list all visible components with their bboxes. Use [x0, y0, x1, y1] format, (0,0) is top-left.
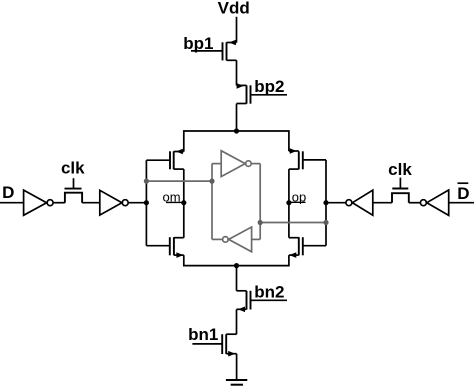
transistor bp1: [223, 40, 237, 61]
svg-text:bp1: bp1: [183, 34, 213, 53]
transistor P latch left: [170, 149, 184, 170]
svg-text:D: D: [457, 184, 469, 203]
svg-text:op: op: [292, 190, 306, 205]
wire keeper to left gate column (gray): [146, 180, 212, 182]
wire keeper left vertical (gray): [211, 164, 213, 240]
wire D input: [0, 202, 24, 204]
svg-text:bn2: bn2: [254, 282, 284, 301]
wire top rail: [184, 131, 289, 152]
node bottom rail junction: [234, 263, 239, 268]
inverter keeper top (gray): [212, 151, 260, 177]
node op junction: [286, 200, 291, 205]
svg-text:D: D: [2, 183, 14, 202]
node gray junction right gate column: [323, 220, 328, 225]
node om junction: [181, 200, 186, 205]
wire node op column: [288, 169, 290, 238]
inverter left input stage: [24, 190, 53, 215]
wire node om column: [183, 169, 185, 238]
label D overbar: [458, 182, 469, 184]
svg-text:clk: clk: [388, 160, 412, 179]
wire N latch left gate lead: [146, 245, 169, 247]
transistor P latch right: [289, 148, 303, 169]
wire bp1 gate lead: [191, 50, 223, 52]
ground: [226, 380, 247, 385]
node gray junction keeper left: [209, 179, 214, 184]
svg-text:bn1: bn1: [188, 325, 218, 344]
inverter left drive stage: [100, 190, 128, 215]
wire bp2 gate lead: [251, 94, 288, 96]
transistor N latch right: [289, 237, 303, 258]
wire P latch left gate lead: [146, 159, 170, 161]
node right gate input junction: [323, 200, 328, 205]
wire keeper to right gate column (gray): [260, 222, 326, 224]
wire right gate column: [325, 160, 327, 246]
wire N latch right gate lead: [303, 245, 326, 247]
node gray junction left gate column: [144, 179, 149, 184]
wire pass gate to inverter left: [82, 202, 100, 204]
wire D bar input: [449, 202, 474, 204]
wire bottom rail to bn2 drain: [236, 266, 238, 291]
inverter right drive stage: [346, 190, 373, 215]
wire keeper right vertical (gray): [259, 164, 261, 240]
wire inverter to pass gate right: [409, 202, 420, 204]
wire inverter to right gate column: [326, 202, 346, 204]
node gray junction keeper right: [258, 220, 263, 225]
transistor pass gate left: [65, 178, 83, 203]
node top rail junction: [234, 128, 239, 133]
inverter right input stage: [420, 190, 448, 215]
transistor bn2: [237, 291, 251, 312]
transistor pass gate right: [392, 178, 409, 203]
label op underline: [289, 201, 306, 203]
wire Vdd to bp1 source: [236, 17, 238, 43]
node left gate input junction: [144, 200, 149, 205]
inverter keeper bottom (gray): [212, 227, 260, 252]
svg-text:bp2: bp2: [254, 77, 284, 96]
svg-text:om: om: [163, 190, 181, 205]
transistor bn1: [222, 334, 236, 356]
label om underline: [166, 201, 184, 203]
wire bn2 source to bn1 drain: [236, 309, 238, 334]
wire bottom rail: [184, 255, 289, 266]
wire P latch right gate lead: [303, 159, 326, 161]
wire bn1 gate lead: [192, 343, 222, 345]
transistor N latch left: [170, 237, 184, 258]
wire bn1 source to ground: [236, 354, 238, 380]
wire pass gate to inverter right: [373, 202, 392, 204]
svg-text:clk: clk: [61, 159, 85, 178]
transistor bp2: [237, 83, 251, 104]
wire left gate column: [145, 160, 147, 246]
wire bp2 drain to top rail: [236, 104, 238, 131]
wire inverter to pass gate left: [53, 202, 65, 204]
svg-text:Vdd: Vdd: [218, 0, 250, 17]
wire bn2 gate lead: [251, 299, 288, 301]
wire bp1 drain to bp2 source: [236, 60, 238, 85]
wire inverter to left gate column: [128, 202, 146, 204]
